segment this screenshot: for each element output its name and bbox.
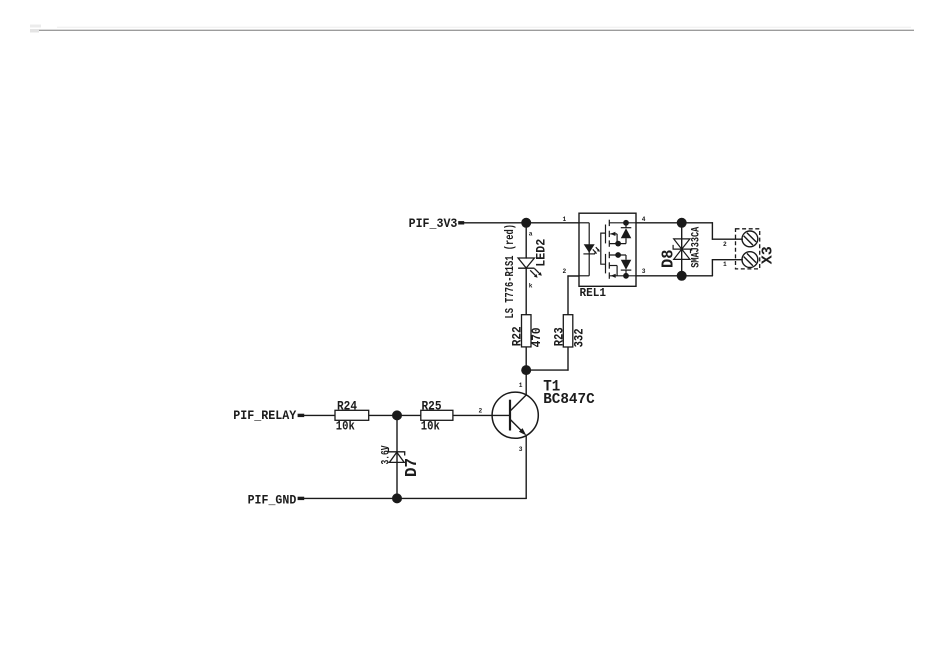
svg-text:D7: D7 [403, 458, 422, 477]
svg-text:1: 1 [519, 382, 523, 389]
svg-text:a: a [529, 231, 533, 238]
svg-text:3.6V: 3.6V [380, 445, 392, 464]
svg-text:D8: D8 [660, 250, 679, 269]
svg-text:LS T776-R1S1 (red): LS T776-R1S1 (red) [504, 224, 517, 319]
svg-text:PIF_RELAY: PIF_RELAY [233, 408, 296, 423]
svg-text:SMAJ33CA: SMAJ33CA [690, 226, 702, 267]
svg-text:BC847C: BC847C [543, 391, 595, 408]
svg-text:1: 1 [723, 261, 727, 268]
svg-text:R25: R25 [422, 399, 442, 414]
svg-text:R23: R23 [552, 327, 566, 346]
svg-text:LED2: LED2 [534, 239, 549, 267]
svg-text:332: 332 [572, 328, 586, 347]
svg-text:2: 2 [723, 241, 727, 248]
svg-text:470: 470 [530, 327, 544, 347]
svg-text:PIF_GND: PIF_GND [248, 493, 297, 508]
svg-text:3: 3 [519, 446, 523, 453]
svg-text:PIF_3V3: PIF_3V3 [409, 216, 458, 231]
svg-text:REL1: REL1 [580, 286, 607, 300]
svg-text:R24: R24 [337, 399, 357, 414]
svg-text:X3: X3 [760, 246, 777, 264]
svg-text:3: 3 [642, 268, 646, 275]
svg-text:10k: 10k [421, 419, 440, 434]
svg-text:2: 2 [563, 268, 567, 275]
svg-text:1: 1 [563, 216, 567, 223]
svg-text:4: 4 [642, 216, 646, 223]
svg-text:10k: 10k [336, 419, 355, 434]
svg-text:k: k [529, 283, 533, 290]
svg-text:2: 2 [479, 407, 483, 414]
svg-text:R22: R22 [511, 326, 525, 346]
